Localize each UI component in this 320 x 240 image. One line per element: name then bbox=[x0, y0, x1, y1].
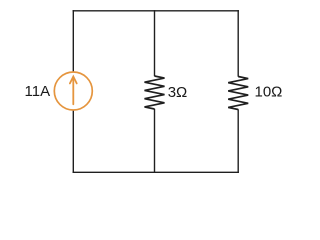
wire middle lower bbox=[154, 109, 156, 173]
wire left lower bbox=[72, 110, 74, 173]
wire top bbox=[73, 10, 239, 12]
current source I1 arrow bbox=[70, 77, 77, 105]
resistor R1 3ohm zigzag bbox=[145, 76, 165, 109]
wire bottom bbox=[73, 171, 239, 173]
wire right upper bbox=[237, 10, 239, 77]
svg-text:3Ω: 3Ω bbox=[168, 84, 188, 101]
wire right lower bbox=[237, 109, 239, 173]
resistor R2 10ohm zigzag bbox=[228, 77, 248, 110]
svg-text:10Ω: 10Ω bbox=[255, 84, 283, 101]
wire middle upper bbox=[154, 10, 156, 76]
current source I1 circle bbox=[54, 72, 92, 110]
svg-text:11A: 11A bbox=[25, 83, 51, 100]
wire left upper bbox=[72, 10, 74, 72]
